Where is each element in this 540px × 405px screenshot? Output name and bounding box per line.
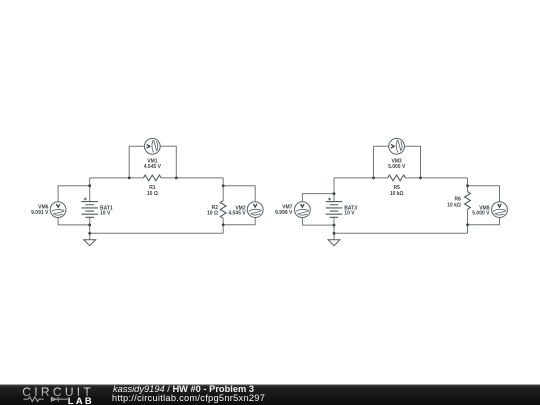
svg-text:LAB: LAB bbox=[68, 395, 94, 405]
svg-text:10 kΩ: 10 kΩ bbox=[390, 191, 404, 197]
svg-text:9.091 V: 9.091 V bbox=[31, 210, 49, 216]
svg-text:10 V: 10 V bbox=[344, 210, 355, 216]
svg-text:10 kΩ: 10 kΩ bbox=[447, 203, 461, 209]
svg-text:4.545 V: 4.545 V bbox=[144, 164, 162, 170]
svg-text:10 Ω: 10 Ω bbox=[147, 191, 158, 197]
svg-text:4.545 V: 4.545 V bbox=[228, 211, 246, 217]
svg-text:10 V: 10 V bbox=[100, 210, 111, 216]
svg-text:5.000 V: 5.000 V bbox=[388, 164, 406, 170]
svg-text:5.000 V: 5.000 V bbox=[472, 211, 490, 217]
svg-text:9.999 V: 9.999 V bbox=[275, 210, 293, 216]
svg-text:http://circuitlab.com/cfpg5nr5: http://circuitlab.com/cfpg5nr5xn297 bbox=[112, 393, 265, 403]
svg-text:R5: R5 bbox=[393, 185, 400, 191]
svg-text:10 Ω: 10 Ω bbox=[207, 211, 218, 217]
svg-text:R1: R1 bbox=[149, 185, 156, 191]
